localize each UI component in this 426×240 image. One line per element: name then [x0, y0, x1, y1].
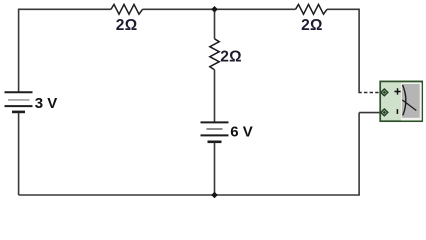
meter label plus sign [394, 88, 400, 94]
galvanometer U1 display panel white frame [401, 83, 422, 121]
meter terminal pin minus [381, 109, 388, 116]
meter terminal pin minus center [383, 111, 386, 114]
svg-text:6 V: 6 V [230, 123, 253, 140]
wire right vertical down to meter plus [358, 9, 360, 93]
junction node B top [211, 6, 218, 13]
galvanometer U1 scale arc [403, 85, 406, 115]
wire battery V2 down to bottom node [214, 143, 216, 196]
resistor R3 2ohm middle vertical [210, 39, 219, 70]
wire node B down to R3 [214, 9, 216, 39]
battery V2 plate2 short gray [207, 128, 223, 130]
wire node B to R2 [215, 8, 296, 10]
resistor R2 2ohm top-right [296, 4, 328, 14]
svg-text:2Ω: 2Ω [116, 17, 138, 34]
wire right vertical down to bottom [358, 113, 360, 195]
meter terminal pin plus center [383, 91, 386, 94]
battery V1 3V plate1 long [5, 91, 33, 93]
battery V2 plate3 long [201, 134, 229, 136]
battery V1 plate2 short gray [8, 99, 30, 101]
wire bottom right segment [215, 194, 360, 196]
meter terminal pin plus [381, 89, 388, 96]
wire R3 to battery V2 [214, 70, 216, 122]
wire bottom left segment [19, 194, 215, 196]
wire left vertical bottom (battery V1 to corner) [18, 113, 20, 196]
wire top-left (node A to R1) [19, 8, 112, 10]
battery V2 6V plate1 long [201, 121, 229, 123]
galvanometer U1 body [380, 81, 422, 121]
meter label minus sign (vertical bar) [396, 109, 398, 114]
svg-text:2Ω: 2Ω [220, 48, 242, 65]
wire dashed to meter plus terminal [358, 92, 381, 94]
battery V1 plate3 long [5, 105, 33, 107]
junction node C bottom [211, 192, 218, 199]
wire R1 to node B [143, 8, 215, 10]
wire meter minus terminal to left [359, 112, 383, 114]
resistor R1 2ohm top-left [111, 4, 143, 14]
battery V1 plate4 short [12, 111, 25, 114]
wire R2 to top-right corner [327, 8, 359, 10]
battery V2 plate4 short [208, 141, 222, 144]
wire left vertical top (corner to battery V1) [18, 9, 20, 93]
svg-text:2Ω: 2Ω [301, 17, 323, 34]
svg-text:3 V: 3 V [35, 95, 58, 112]
galvanometer U1 display panel gray screen [402, 84, 420, 118]
galvanometer U1 needle [402, 100, 416, 111]
